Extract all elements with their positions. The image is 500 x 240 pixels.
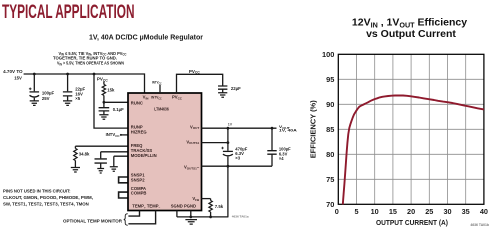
capacitor C3 0.1uF (103, 102, 105, 107)
brace optional temp monitor (124, 214, 128, 226)
resistor R1 15k (103, 81, 105, 84)
svg-text:VFB​: VFB​ (192, 196, 200, 202)
svg-text:vs Output Current: vs Output Current (366, 28, 456, 40)
svg-text:40: 40 (480, 207, 488, 216)
svg-text:25: 25 (425, 207, 433, 216)
svg-text:5: 5 (354, 207, 358, 216)
svg-text:×3: ×3 (235, 156, 240, 161)
ground main (185, 220, 197, 225)
svg-text:SGND PGND: SGND PGND (171, 204, 196, 209)
svg-text:INTVCC​: INTVCC​ (152, 80, 162, 86)
svg-text:10: 10 (371, 207, 379, 216)
svg-text:EFFICIENCY (%): EFFICIENCY (%) (311, 100, 318, 158)
ground MODE/PLLIN (110, 167, 118, 172)
resistor R2 34.8k (74, 146, 76, 148)
wire TRACK/SS (101, 152, 128, 159)
svg-text:90: 90 (326, 100, 334, 109)
svg-text:22µF: 22µF (231, 86, 241, 91)
svg-text:7.5k: 7.5k (215, 204, 224, 209)
svg-text:1V: 1V (228, 122, 233, 126)
junction RUNP branch (93, 73, 96, 76)
wire FREQ (75, 145, 128, 147)
node RUNC (103, 101, 106, 104)
svg-text:VOUTS1​: VOUTS1​ (186, 139, 199, 145)
svg-text:SNSP2: SNSP2 (131, 178, 145, 183)
ground TRACK/SS (97, 169, 104, 174)
capacitor C1 100uF 25V (33, 74, 35, 91)
graph frame (338, 54, 484, 204)
wire input rail (24, 74, 145, 93)
junction VOUT/C5 (227, 127, 230, 130)
wire RUNC (104, 101, 128, 103)
capacitor C2 22uF 16V x5 (67, 74, 69, 91)
wire VOUTS1- rail (202, 165, 273, 167)
ground below C2 (63, 101, 72, 106)
svg-text:1V, 40A: 1V, 40A (279, 128, 297, 133)
junction input cap2 (66, 73, 69, 76)
svg-text:70: 70 (326, 200, 334, 209)
svg-text:PVCC​: PVCC​ (172, 95, 183, 101)
svg-text:0.1µF: 0.1µF (113, 107, 124, 112)
junction PGND (189, 216, 192, 219)
svg-text:35: 35 (462, 207, 470, 216)
capacitor C5 470uF x3 (227, 128, 229, 151)
junction R3/gnd rail (209, 216, 212, 219)
svg-text:INTVCC​: INTVCC​ (106, 132, 121, 138)
svg-text:TEMP+​ TEMP–​: TEMP+​ TEMP–​ (132, 204, 160, 210)
ground below R2 (71, 168, 80, 173)
wire TEMP+ (128, 211, 139, 217)
svg-text:PINS NOT USED IN THIS CIRCUIT:: PINS NOT USED IN THIS CIRCUIT: (3, 188, 71, 193)
capacitor C4 22uF (218, 86, 227, 89)
svg-text:1V, 40A DC/DC µModule Regulato: 1V, 40A DC/DC µModule Regulator (89, 34, 203, 41)
wire SGND drop (176, 211, 178, 217)
capacitor C6 100uF x4 (271, 128, 273, 150)
ground below C1 (30, 101, 39, 106)
capacitor soft-start (95, 159, 107, 163)
wire PGND drop (190, 211, 192, 217)
svg-text:25V: 25V (42, 96, 50, 101)
ground below C4 (218, 93, 227, 98)
svg-text:4636 TA01b: 4636 TA01b (470, 223, 489, 227)
wire VFB (202, 198, 211, 200)
wire HIZREG (120, 134, 122, 136)
svg-text:VIN​: VIN​ (143, 95, 149, 101)
svg-text:15: 15 (389, 207, 397, 216)
svg-text:20: 20 (407, 207, 415, 216)
svg-text:85: 85 (326, 125, 334, 134)
svg-text:4636 TA01a: 4636 TA01a (232, 215, 249, 219)
wire MODE/PLLIN (114, 156, 128, 166)
svg-text:OUTPUT CURRENT (A): OUTPUT CURRENT (A) (376, 218, 448, 227)
resistor R3 7.5k (210, 199, 212, 201)
graph grid (338, 54, 484, 204)
wire TEMP- (128, 211, 155, 224)
junction VOUTS1 (227, 141, 230, 144)
IC U1 LTM4636 module body (128, 93, 202, 211)
svg-text:15V: 15V (14, 75, 22, 80)
svg-text:INTVCC​: INTVCC​ (151, 95, 161, 101)
svg-text:30: 30 (443, 207, 451, 216)
wire VOUT rail (202, 127, 277, 129)
svg-text:34.8k: 34.8k (79, 152, 90, 157)
svg-text:×5: ×5 (75, 96, 81, 101)
wire SNSP1-SNSP2 jumper (119, 177, 128, 183)
svg-text:VOUTS1​–: VOUTS1​– (184, 165, 200, 171)
svg-text:SW, TEST1, TEST2, TEST3, TEST4: SW, TEST1, TEST2, TEST3, TEST4, TMON (3, 201, 89, 206)
svg-text:RUNC: RUNC (131, 100, 143, 105)
svg-text:HIZREG: HIZREG (131, 129, 147, 134)
svg-text:COMPB: COMPB (131, 191, 147, 196)
svg-text:75: 75 (326, 175, 334, 184)
svg-text:CLKOUT, GMON, PGOOD, PHMODE, P: CLKOUT, GMON, PGOOD, PHMODE, PWM, (3, 195, 93, 200)
wire RUNP from rail (94, 74, 128, 128)
wire COMPA-COMPB jumper (119, 192, 128, 198)
svg-text:VOUT​: VOUT​ (190, 124, 199, 130)
junction VOUTS1- at C5 (227, 165, 230, 168)
svg-text:PVCC​: PVCC​ (97, 76, 109, 82)
svg-text:0: 0 (335, 207, 339, 216)
wire PVCC to C4 (177, 74, 223, 93)
svg-text:80: 80 (326, 150, 334, 159)
svg-text:LTM4636: LTM4636 (154, 107, 169, 112)
svg-text:TYPICAL APPLICATION: TYPICAL APPLICATION (2, 1, 135, 23)
efficiency curve (343, 95, 484, 204)
svg-text:×4: ×4 (279, 156, 284, 161)
svg-text:95: 95 (326, 75, 334, 84)
ground below C3 (99, 115, 108, 120)
svg-text:OPTIONAL TEMP MONITOR: OPTIONAL TEMP MONITOR (63, 218, 123, 223)
svg-text:15k: 15k (107, 88, 115, 93)
wire VOUTS1 (202, 142, 228, 144)
junction VOUT/C6 (271, 127, 274, 130)
svg-text:4.70V TO: 4.70V TO (3, 69, 23, 74)
junction input cap1 (33, 73, 36, 76)
svg-text:100: 100 (322, 50, 334, 59)
wire ground rail (177, 216, 229, 218)
wire INTVCC stub (159, 85, 161, 93)
svg-text:MODE/PLLIN: MODE/PLLIN (131, 153, 157, 158)
svg-text:100µF: 100µF (42, 91, 55, 96)
